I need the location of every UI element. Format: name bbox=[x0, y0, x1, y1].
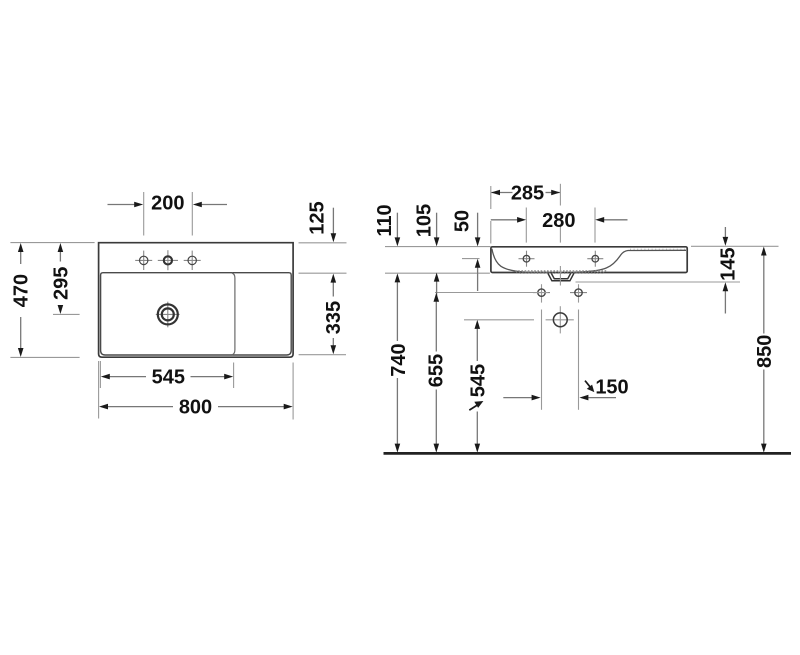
svg-text:545: 545 bbox=[152, 367, 185, 389]
dimension 295 (drain centre from back) bbox=[50, 243, 79, 314]
extension line fixing holes bbox=[435, 292, 548, 294]
extension line top edge left bbox=[385, 246, 491, 248]
svg-text:335: 335 bbox=[323, 301, 345, 334]
ground surface stipple (elevation) bbox=[515, 249, 685, 273]
extension line basin left edge up bbox=[490, 186, 492, 244]
dimension 105 bbox=[414, 204, 440, 301]
fixing hole right (elevation) bbox=[570, 284, 587, 410]
faucet hole left (elevation) bbox=[519, 251, 535, 267]
svg-text:285: 285 bbox=[511, 183, 544, 205]
dimension 800 (overall width) bbox=[99, 361, 294, 420]
dimension 655 bbox=[426, 293, 448, 453]
floor line bbox=[384, 452, 792, 455]
svg-text:105: 105 bbox=[414, 204, 436, 237]
extension line siphon level bbox=[464, 319, 534, 321]
dimension 125 (rim depth) bbox=[299, 201, 347, 242]
extension line tap left up bbox=[525, 208, 527, 243]
svg-text:470: 470 bbox=[10, 274, 32, 307]
siphon outlet (elevation) bbox=[546, 306, 574, 333]
dimension 280 (tap hole spacing, elevation) bbox=[491, 210, 628, 232]
extension line top edge right bbox=[691, 245, 779, 247]
svg-text:200: 200 bbox=[151, 193, 184, 215]
svg-text:655: 655 bbox=[426, 354, 448, 387]
svg-text:545: 545 bbox=[467, 364, 489, 397]
centreline through drain bbox=[559, 184, 561, 286]
dimension 285 (drain from left) bbox=[491, 183, 560, 205]
fixing hole left (elevation) bbox=[533, 284, 550, 410]
dimension 335 (inner basin depth) bbox=[299, 273, 347, 355]
drain outlet (elevation) bbox=[548, 273, 574, 281]
dimension 850 bbox=[754, 247, 776, 453]
dimension 545 (plan, basin width) bbox=[100, 361, 233, 389]
extension line underside left bbox=[385, 272, 490, 274]
svg-text:50: 50 bbox=[452, 210, 474, 232]
svg-text:280: 280 bbox=[542, 210, 575, 232]
dimension 145 bbox=[718, 227, 740, 314]
washbasin outer rim (plan) bbox=[99, 243, 294, 357]
washbasin body (elevation) bbox=[491, 247, 687, 273]
svg-text:295: 295 bbox=[50, 267, 72, 300]
extension line tap level bbox=[462, 258, 480, 260]
svg-text:150: 150 bbox=[595, 377, 628, 399]
dimension 110 bbox=[374, 204, 400, 246]
basin inner rim (plan) bbox=[101, 273, 292, 355]
drain (plan) bbox=[156, 302, 180, 328]
extension line 145 bottom bbox=[576, 281, 741, 283]
svg-text:125: 125 bbox=[307, 201, 329, 234]
svg-text:740: 740 bbox=[388, 343, 410, 376]
faucet hole left (plan) bbox=[135, 251, 152, 270]
faucet hole middle (plan) bbox=[158, 250, 178, 270]
extension line tap right up bbox=[594, 208, 596, 243]
svg-text:850: 850 bbox=[754, 335, 776, 368]
faucet hole right (plan) bbox=[184, 251, 201, 270]
basin interior profile (elevation) bbox=[492, 249, 686, 273]
dimension 50 bbox=[452, 210, 481, 291]
dimension 470 (overall depth) bbox=[10, 243, 94, 358]
svg-text:800: 800 bbox=[179, 397, 212, 419]
dimension 200 (tap hole spacing) bbox=[108, 192, 228, 236]
dimension 740 bbox=[388, 273, 410, 452]
dimension 150 (fixing hole spacing) bbox=[503, 377, 628, 401]
basin / shelf divider (plan) bbox=[232, 273, 235, 355]
faucet hole right (elevation) bbox=[587, 251, 603, 267]
svg-text:110: 110 bbox=[374, 204, 396, 236]
dimension 545 (elevation, siphon height) bbox=[467, 320, 489, 453]
svg-text:145: 145 bbox=[718, 248, 740, 281]
